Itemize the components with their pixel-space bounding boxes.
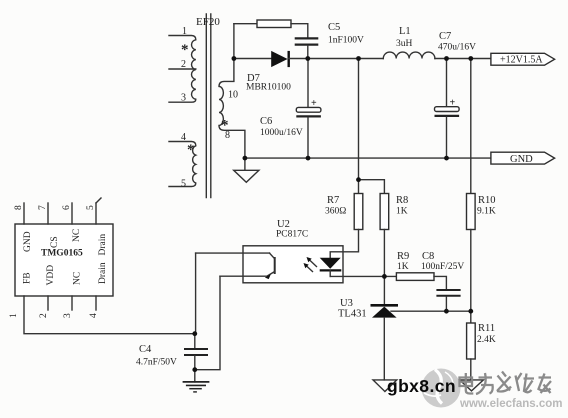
svg-text:3uH: 3uH — [396, 39, 413, 49]
svg-text:GND: GND — [23, 231, 33, 252]
wire snubber to C5 — [291, 24, 308, 38]
svg-text:VDD: VDD — [46, 265, 56, 286]
svg-text:R10: R10 — [478, 195, 496, 206]
electrolytic capacitor C6 — [296, 59, 321, 159]
svg-text:NC: NC — [73, 272, 83, 285]
svg-text:6: 6 — [62, 205, 72, 210]
svg-text:470u/16V: 470u/16V — [438, 43, 476, 53]
wire R11 to ground — [470, 359, 472, 380]
svg-text:2.4K: 2.4K — [477, 335, 496, 345]
junction node R7 rail — [356, 56, 361, 61]
junction node C5 rail — [305, 56, 310, 61]
svg-text:1nF100V: 1nF100V — [328, 36, 364, 46]
svg-text:1K: 1K — [396, 207, 408, 217]
svg-text:1: 1 — [9, 313, 19, 318]
earth ground under C4 — [183, 370, 210, 392]
junction node R8 R9 LED — [382, 274, 387, 279]
watermark chinese dianzifashaoyou — [460, 372, 552, 395]
diode D7 anode wire — [234, 58, 271, 60]
+12V1.5A net arrow — [491, 53, 555, 65]
svg-text:EF20: EF20 — [196, 16, 220, 28]
pin 3 stub — [71, 296, 73, 310]
svg-text:1000u/16V: 1000u/16V — [260, 128, 303, 138]
IC U1 TMG0165 box — [15, 224, 113, 296]
svg-text:+: + — [311, 98, 317, 109]
svg-text:*: * — [181, 42, 189, 58]
svg-text:NC: NC — [72, 229, 82, 242]
junction node secondary gnd — [243, 156, 248, 161]
svg-text:100nF/25V: 100nF/25V — [421, 262, 464, 272]
svg-text:4: 4 — [181, 132, 186, 143]
svg-text:R9: R9 — [397, 251, 409, 262]
svg-text:C5: C5 — [328, 22, 340, 33]
svg-text:3: 3 — [181, 93, 186, 104]
svg-text:GND: GND — [510, 154, 533, 165]
svg-text:gbx8.cn: gbx8.cn — [387, 376, 456, 396]
resistor R7 — [354, 194, 363, 230]
transformer primary winding pins 1-3 — [169, 36, 196, 103]
svg-text:2: 2 — [39, 313, 49, 318]
svg-text:TMG0165: TMG0165 — [41, 249, 83, 259]
optocoupler U2 box — [243, 246, 343, 283]
svg-text:L1: L1 — [399, 26, 411, 37]
junction node R10 R11 ref — [468, 309, 473, 314]
svg-text:Drain: Drain — [98, 262, 108, 284]
junction node R7 R8 branch — [356, 177, 361, 182]
svg-text:1: 1 — [182, 26, 187, 37]
svg-text:+: + — [450, 98, 456, 109]
+12V rail after L1 — [435, 58, 491, 60]
svg-text:U2: U2 — [277, 219, 290, 230]
opto phototransistor Q — [265, 253, 275, 279]
wire TL431 ref line — [391, 310, 471, 312]
svg-text:C8: C8 — [422, 251, 434, 262]
snubber resistor (unlabeled) — [257, 20, 291, 28]
junction node C7 gnd — [444, 156, 449, 161]
wire snubber top horizontal left — [234, 23, 257, 25]
svg-text:R8: R8 — [396, 195, 408, 206]
wire branch to R8 — [359, 180, 385, 194]
resistor R9 — [396, 273, 434, 281]
svg-text:R7: R7 — [327, 195, 339, 206]
pin 6 stub — [71, 203, 73, 224]
svg-text:*: * — [221, 118, 229, 134]
capacitor C8 — [436, 290, 460, 311]
pin 5 stub — [96, 198, 101, 224]
junction node C6 gnd — [306, 156, 311, 161]
+12V output rail — [289, 58, 384, 60]
pin 8 stub — [23, 203, 25, 224]
electrolytic capacitor C7 — [435, 59, 460, 159]
wire emitter drop — [195, 276, 220, 370]
junction node R10 rail — [468, 56, 473, 61]
svg-text:4: 4 — [89, 313, 99, 318]
svg-text:10: 10 — [228, 90, 238, 101]
wire R9 to C8 — [434, 276, 446, 289]
ground under R11 — [460, 380, 484, 391]
wire collector drop to FB node — [195, 253, 197, 334]
pin 4 stub — [95, 296, 97, 310]
svg-text:3: 3 — [63, 313, 73, 318]
svg-text:5: 5 — [86, 205, 96, 210]
wire emitter to left — [220, 275, 266, 277]
resistor R8 — [380, 194, 389, 230]
ground under TL431 — [373, 380, 397, 392]
svg-text:8: 8 — [14, 205, 24, 210]
junction node FB C4 — [192, 331, 197, 336]
junction node C8 ref — [444, 309, 449, 314]
svg-text:2: 2 — [181, 59, 186, 70]
junction node C4 gnd — [192, 367, 197, 372]
pin 7 stub — [47, 203, 49, 224]
GND rail — [245, 157, 491, 159]
svg-text:PC817C: PC817C — [276, 230, 308, 240]
ground under secondary — [234, 158, 259, 182]
transformer primary winding pins 4-5 — [169, 142, 196, 187]
wire snubber top left vertical — [233, 24, 235, 59]
transformer pin 2 stub — [169, 68, 196, 70]
svg-text:5: 5 — [181, 179, 186, 190]
svg-text:1K: 1K — [397, 262, 409, 272]
transformer T1 core — [206, 14, 211, 198]
GND net arrow — [491, 152, 555, 165]
svg-text:FB: FB — [23, 272, 33, 284]
svg-text:Drain: Drain — [98, 234, 108, 256]
pin 2 stub — [47, 296, 49, 310]
diode D7 — [271, 51, 289, 67]
opto light arrows — [304, 257, 317, 272]
capacitor C5 — [295, 38, 319, 58]
svg-text:C7: C7 — [439, 31, 451, 42]
svg-text:C6: C6 — [260, 116, 272, 127]
shunt regulator U3 TL431 — [371, 305, 399, 380]
svg-text:MBR10100: MBR10100 — [246, 83, 291, 93]
svg-text:CS: CS — [50, 236, 60, 248]
inductor L1 — [383, 52, 435, 58]
svg-text:U3: U3 — [340, 298, 353, 309]
opto LED diode — [320, 258, 342, 277]
resistor R11 — [467, 323, 476, 359]
wire R7 bottom to LED anode — [330, 230, 358, 258]
transformer secondary winding pins 10-8 — [219, 59, 245, 159]
capacitor C4 — [184, 334, 208, 370]
wire rail to R7 — [358, 59, 360, 194]
svg-text:www.elecfans.com: www.elecfans.com — [459, 398, 562, 410]
svg-text:R11: R11 — [478, 323, 495, 334]
svg-text:7: 7 — [38, 205, 48, 210]
junction node C7 rail — [444, 56, 449, 61]
resistor R10 — [467, 194, 476, 230]
svg-text:TL431: TL431 — [338, 309, 367, 320]
pin 1 stub and FB wire — [24, 296, 195, 334]
svg-text:C4: C4 — [139, 344, 152, 355]
wire R10 bottom to node — [470, 230, 472, 324]
junction node diode anode — [232, 56, 237, 61]
wire R8 bottom to TL431 — [383, 230, 385, 305]
svg-text:*: * — [187, 142, 195, 158]
svg-text:360Ω: 360Ω — [325, 207, 346, 217]
wire collector to left — [196, 252, 270, 254]
watermark logo circle swirl — [422, 369, 461, 408]
wire rail to R10 — [470, 59, 472, 194]
wire LED cathode to R9 node — [330, 275, 396, 277]
svg-text:4.7nF/50V: 4.7nF/50V — [136, 358, 177, 368]
svg-text:9.1K: 9.1K — [477, 207, 496, 217]
svg-text:+12V1.5A: +12V1.5A — [500, 55, 543, 66]
